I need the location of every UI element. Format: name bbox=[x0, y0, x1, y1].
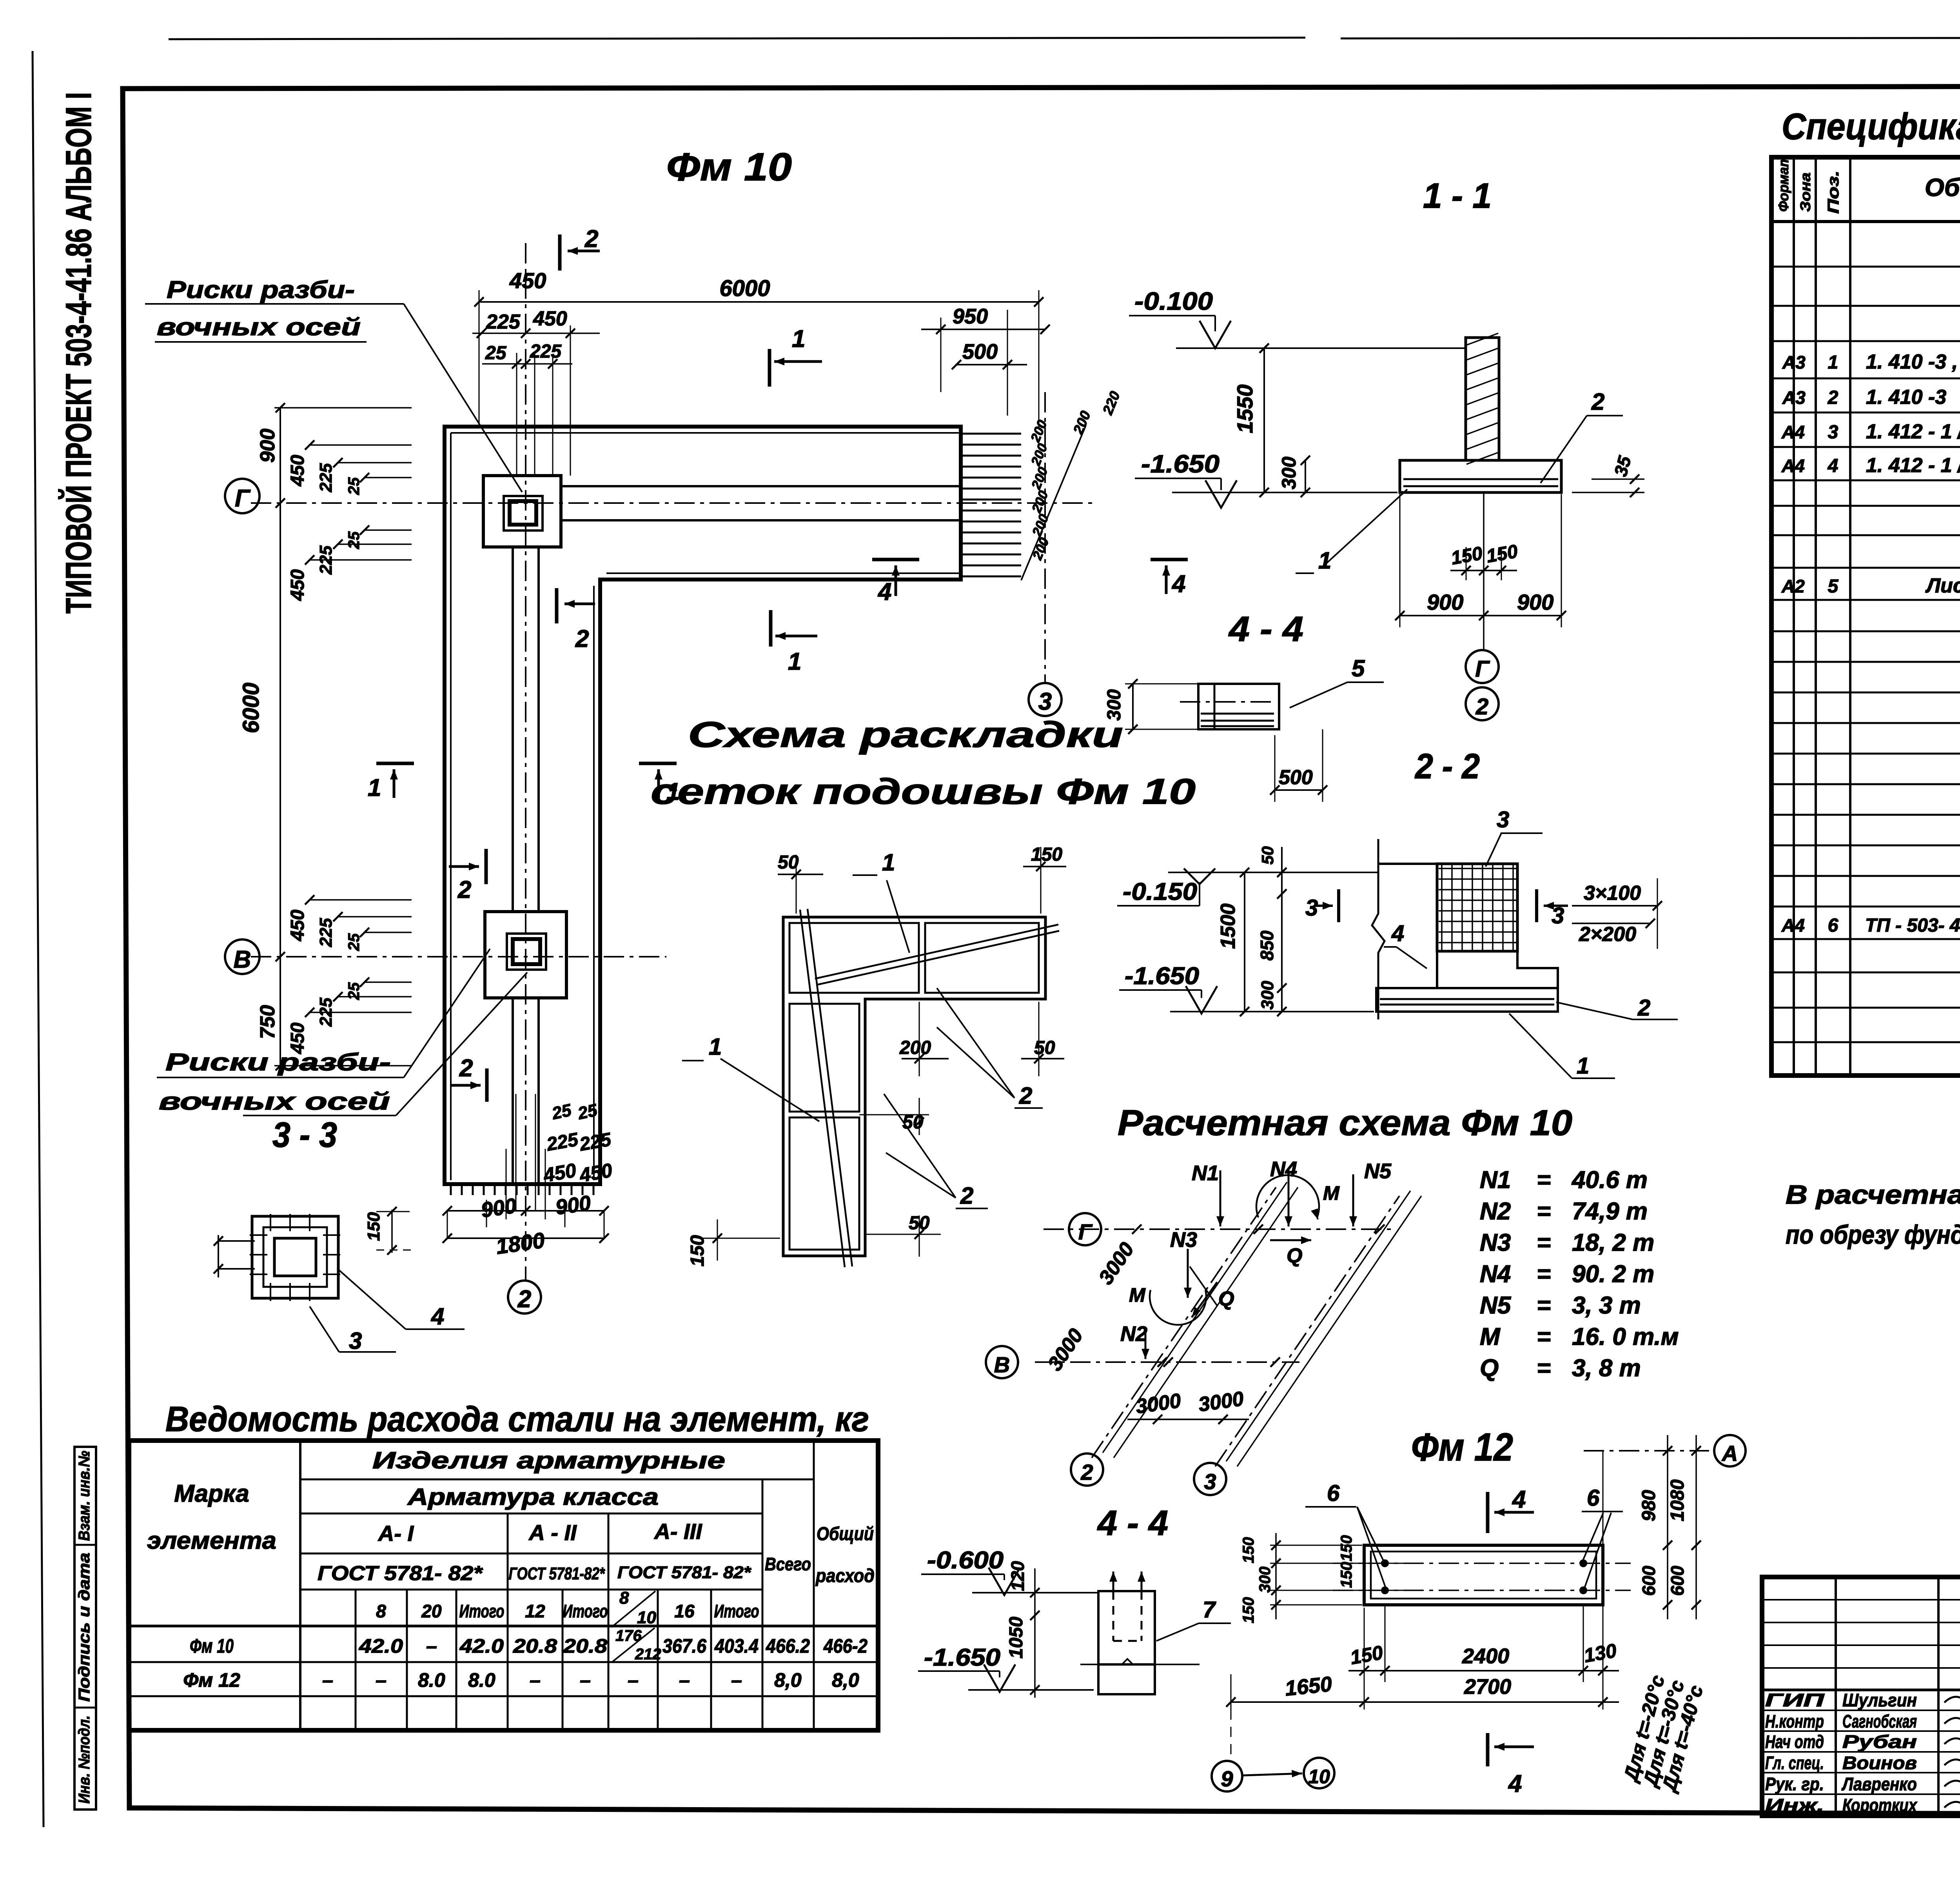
svg-text:3: 3 bbox=[1038, 688, 1052, 715]
svg-text:1. 412 - 1 / 77,: 1. 412 - 1 / 77, bbox=[1866, 420, 1960, 443]
svg-text:600: 600 bbox=[1667, 1566, 1688, 1596]
section mark 2 top bbox=[558, 234, 562, 271]
svg-text:2: 2 bbox=[1637, 995, 1650, 1021]
svg-text:Рук. гр.: Рук. гр. bbox=[1765, 1774, 1824, 1794]
svg-text:25: 25 bbox=[485, 343, 507, 363]
mesh sheets inner rects bbox=[789, 923, 919, 993]
svg-text:900: 900 bbox=[1517, 590, 1553, 614]
paper left edge line bbox=[33, 51, 44, 1827]
svg-text:8.0: 8.0 bbox=[468, 1669, 495, 1691]
mesh layout dims bbox=[796, 855, 797, 914]
svg-text:N2: N2 bbox=[1480, 1198, 1511, 1225]
svg-text:-0.600: -0.600 bbox=[927, 1547, 1004, 1574]
svg-text:=: = bbox=[1537, 1198, 1551, 1225]
svg-text:–: – bbox=[426, 1635, 437, 1657]
dims 150 150 bbox=[1466, 547, 1467, 580]
svg-text:16. 0 т.м: 16. 0 т.м bbox=[1572, 1323, 1679, 1350]
svg-text:-0.100: -0.100 bbox=[1134, 287, 1213, 315]
svg-text:Фм 10: Фм 10 bbox=[666, 145, 792, 189]
svg-text:6000: 6000 bbox=[719, 276, 770, 301]
dims 120 1050 bbox=[1034, 1568, 1036, 1698]
svg-text:Зона: Зона bbox=[1797, 173, 1813, 212]
svg-text:2×200: 2×200 bbox=[1579, 923, 1636, 946]
svg-text:–: – bbox=[679, 1669, 690, 1691]
svg-text:225: 225 bbox=[316, 463, 336, 492]
svg-text:4 - 4: 4 - 4 bbox=[1097, 1504, 1168, 1543]
svg-text:300: 300 bbox=[1278, 456, 1300, 489]
svg-text:900: 900 bbox=[1427, 590, 1463, 614]
svg-text:=: = bbox=[1537, 1261, 1551, 1288]
svg-text:1050: 1050 bbox=[1006, 1617, 1027, 1659]
svg-text:3: 3 bbox=[1828, 422, 1838, 443]
svg-text:Лист 11: Лист 11 bbox=[1925, 574, 1960, 597]
svg-text:4: 4 bbox=[1512, 1486, 1526, 1513]
svg-text:Арматура класса: Арматура класса bbox=[407, 1484, 659, 1510]
svg-text:N5: N5 bbox=[1480, 1292, 1512, 1319]
svg-text:3: 3 bbox=[1305, 895, 1318, 921]
2-2 step and footing bbox=[1437, 951, 1558, 988]
column pad at G/2 bbox=[483, 476, 561, 547]
axis circle V bbox=[225, 939, 260, 974]
svg-text:212: 212 bbox=[635, 1646, 661, 1663]
svg-text:-1.650: -1.650 bbox=[924, 1644, 1000, 1671]
svg-text:3: 3 bbox=[349, 1328, 362, 1354]
vedomost grid bbox=[129, 1441, 878, 1730]
2-2 break line bbox=[1372, 839, 1385, 1019]
svg-text:466.2: 466.2 bbox=[766, 1635, 810, 1657]
svg-text:по обрезу фундамента на: по обрезу фундамента на отм. - 0. 150. bbox=[1786, 1220, 1960, 1250]
svg-text:4: 4 bbox=[1828, 456, 1838, 476]
svg-text:1080: 1080 bbox=[1667, 1479, 1688, 1521]
dim 35 bbox=[1572, 492, 1644, 493]
load N2 bbox=[1145, 1331, 1147, 1359]
svg-text:300: 300 bbox=[1258, 981, 1277, 1010]
load Q top bbox=[1270, 1239, 1311, 1241]
svg-text:–: – bbox=[530, 1669, 541, 1691]
load N5 bbox=[1352, 1174, 1354, 1226]
top dimension chain 6000 bbox=[479, 290, 480, 427]
svg-text:225: 225 bbox=[316, 918, 336, 947]
svg-text:1 - 1: 1 - 1 bbox=[1423, 176, 1492, 216]
svg-text:Формат: Формат bbox=[1775, 155, 1791, 212]
Fm12 anchors bbox=[1381, 1559, 1389, 1567]
svg-text:Н.контр: Н.контр bbox=[1765, 1711, 1824, 1731]
svg-text:8,0: 8,0 bbox=[832, 1669, 859, 1691]
svg-text:900: 900 bbox=[256, 429, 279, 463]
Fm12 right dims bbox=[1602, 1451, 1604, 1611]
svg-text:2400: 2400 bbox=[1462, 1644, 1509, 1668]
svg-text:Лавренко: Лавренко bbox=[1841, 1774, 1917, 1794]
svg-text:1: 1 bbox=[1828, 352, 1838, 373]
svg-text:Подпись и дата: Подпись и дата bbox=[76, 1553, 93, 1702]
axis 3 vertical dash-dot line bbox=[1044, 392, 1046, 683]
title block left columns bbox=[1762, 1577, 1960, 1816]
svg-text:950: 950 bbox=[953, 305, 988, 328]
svg-text:А4: А4 bbox=[1781, 915, 1805, 936]
svg-text:Поз.: Поз. bbox=[1825, 171, 1842, 214]
axis circles G and 2 under 1-1 bbox=[1466, 650, 1499, 683]
svg-text:2700: 2700 bbox=[1464, 1675, 1511, 1699]
svg-text:Схема раскладки: Схема раскладки bbox=[688, 715, 1123, 755]
svg-text:Расчетная схема Фм 10: Расчетная схема Фм 10 bbox=[1118, 1103, 1572, 1143]
svg-text:N3: N3 bbox=[1170, 1228, 1197, 1252]
svg-text:Рубан: Рубан bbox=[1842, 1731, 1917, 1752]
svg-text:N5: N5 bbox=[1364, 1159, 1392, 1183]
svg-text:42.0: 42.0 bbox=[359, 1635, 403, 1657]
svg-text:150: 150 bbox=[1240, 1537, 1257, 1563]
svg-text:176: 176 bbox=[615, 1627, 642, 1644]
load N3 bbox=[1187, 1249, 1189, 1298]
svg-text:16: 16 bbox=[674, 1601, 695, 1621]
vertical dim 6000 bbox=[279, 408, 281, 957]
svg-text:Итого: Итого bbox=[563, 1601, 608, 1621]
svg-text:150: 150 bbox=[1240, 1597, 1257, 1623]
svg-text:Сагнобская: Сагнобская bbox=[1842, 1711, 1917, 1731]
axis V dash-dot line bbox=[251, 956, 666, 957]
svg-text:2: 2 bbox=[459, 1055, 473, 1082]
dims 900 900 bbox=[1399, 494, 1401, 627]
svg-text:ГОСТ 5781- 82*: ГОСТ 5781- 82* bbox=[318, 1562, 483, 1585]
Fm12 centerlines bbox=[1333, 1562, 1631, 1564]
svg-text:20.8: 20.8 bbox=[563, 1635, 607, 1657]
axis A line and circle bbox=[1584, 1450, 1709, 1452]
svg-text:20: 20 bbox=[421, 1601, 442, 1621]
svg-text:3, 3 т: 3, 3 т bbox=[1572, 1292, 1641, 1319]
svg-text:M: M bbox=[1323, 1182, 1340, 1204]
svg-text:1. 410 -3: 1. 410 -3 bbox=[1866, 386, 1946, 409]
axis circle 3 (plan right) bbox=[1029, 683, 1062, 716]
svg-text:=: = bbox=[1537, 1166, 1551, 1194]
svg-text:8: 8 bbox=[376, 1601, 386, 1621]
svg-text:50: 50 bbox=[1034, 1037, 1055, 1058]
section mark 1 right strip bbox=[639, 762, 677, 765]
svg-text:расход: расход bbox=[815, 1566, 875, 1586]
svg-text:2: 2 bbox=[584, 225, 598, 253]
axis circles 9 and 10 bbox=[1212, 1761, 1242, 1791]
svg-text:1: 1 bbox=[368, 774, 381, 801]
svg-text:25: 25 bbox=[345, 982, 363, 1000]
svg-text:Гл. спец.: Гл. спец. bbox=[1765, 1753, 1824, 1773]
dim chain 25/225 bbox=[482, 363, 572, 365]
svg-text:1: 1 bbox=[788, 648, 801, 675]
svg-text:В: В bbox=[994, 1352, 1010, 1377]
section mark 3 left bbox=[1337, 889, 1340, 922]
svg-text:N1: N1 bbox=[1192, 1161, 1219, 1185]
moment M mid bbox=[1150, 1290, 1206, 1325]
svg-text:2: 2 bbox=[1475, 694, 1488, 719]
svg-text:Коротких: Коротких bbox=[1842, 1795, 1918, 1815]
load N4 with moment bbox=[1288, 1170, 1290, 1226]
svg-text:2: 2 bbox=[1019, 1083, 1032, 1109]
svg-text:=: = bbox=[1537, 1292, 1551, 1319]
svg-text:Фм 12: Фм 12 bbox=[183, 1669, 240, 1691]
mesh bars at strip right end bbox=[961, 434, 1021, 576]
svg-text:4: 4 bbox=[1171, 570, 1185, 598]
svg-text:20.8: 20.8 bbox=[513, 1635, 557, 1657]
svg-text:А- III: А- III bbox=[653, 1519, 702, 1544]
svg-text:4: 4 bbox=[1391, 921, 1404, 946]
svg-text:Шульгин: Шульгин bbox=[1842, 1690, 1917, 1710]
svg-text:74,9 т: 74,9 т bbox=[1572, 1198, 1648, 1225]
svg-text:3 - 3: 3 - 3 bbox=[272, 1116, 337, 1155]
mesh bars at strip bottom end bbox=[451, 1184, 593, 1195]
svg-text:1500: 1500 bbox=[1217, 903, 1240, 949]
svg-text:сеток подошвы Фм 10: сеток подошвы Фм 10 bbox=[651, 772, 1196, 812]
svg-text:4 - 4: 4 - 4 bbox=[1228, 610, 1303, 649]
Fm12 left dims bbox=[1270, 1545, 1362, 1546]
section mark 4 bottom (Fm12) bbox=[1486, 1733, 1490, 1766]
svg-text:Взам. инв.№: Взам. инв.№ bbox=[76, 1451, 93, 1541]
svg-text:25: 25 bbox=[576, 1101, 599, 1123]
section mark 4 on strip bbox=[872, 558, 919, 561]
svg-text:450: 450 bbox=[287, 569, 308, 601]
svg-text:4: 4 bbox=[877, 578, 891, 605]
section mark 2 above pad2 bbox=[485, 849, 488, 884]
axon axis 3 diagonal bbox=[1215, 1196, 1399, 1466]
svg-text:450: 450 bbox=[509, 268, 546, 293]
svg-text:Итого: Итого bbox=[459, 1601, 505, 1621]
footing mesh edge inner lines bbox=[451, 432, 961, 434]
svg-text:ТИПОВОЙ ПРОЕКТ 503-4-41.86 АЛЬ: ТИПОВОЙ ПРОЕКТ 503-4-41.86 АЛЬБОМ I bbox=[58, 92, 99, 614]
svg-text:1: 1 bbox=[709, 1034, 722, 1060]
svg-text:450: 450 bbox=[287, 910, 308, 941]
svg-text:Воинов: Воинов bbox=[1842, 1753, 1917, 1773]
Fm12 plan rect bbox=[1364, 1545, 1603, 1605]
svg-text:50: 50 bbox=[909, 1213, 930, 1234]
svg-text:-1.650: -1.650 bbox=[1141, 450, 1220, 478]
specification table grid bbox=[1771, 157, 1960, 1076]
dim 300 (4-4) bbox=[1125, 683, 1198, 685]
svg-text:500: 500 bbox=[1279, 766, 1313, 789]
svg-text:1550: 1550 bbox=[1232, 384, 1257, 433]
svg-text:42.0: 42.0 bbox=[459, 1635, 504, 1657]
svg-text:–: – bbox=[322, 1669, 333, 1691]
svg-text:3: 3 bbox=[1497, 807, 1509, 832]
left dim chain near pad1 bbox=[274, 407, 412, 409]
svg-text:N2: N2 bbox=[1120, 1322, 1147, 1346]
svg-text:Фм 12: Фм 12 bbox=[1411, 1425, 1513, 1469]
svg-text:403.4: 403.4 bbox=[714, 1635, 759, 1657]
svg-text:500: 500 bbox=[962, 340, 998, 363]
dim 1550 bbox=[1263, 348, 1265, 492]
svg-text:А: А bbox=[1721, 1441, 1738, 1466]
svg-text:А - II: А - II bbox=[528, 1520, 577, 1545]
section mark 1 top bbox=[768, 349, 771, 387]
wall edge lines along axis 2 bbox=[512, 547, 514, 912]
svg-text:90. 2 т: 90. 2 т bbox=[1572, 1261, 1654, 1288]
svg-text:600: 600 bbox=[1639, 1566, 1659, 1596]
svg-text:450: 450 bbox=[287, 455, 308, 487]
svg-text:4: 4 bbox=[1508, 1770, 1522, 1797]
bottom dim chains of plan bbox=[515, 1094, 517, 1212]
svg-text:5: 5 bbox=[1828, 576, 1839, 597]
section mark 1 bottom bbox=[769, 610, 773, 647]
mesh diagonal marks bbox=[800, 910, 845, 1267]
svg-text:8,0: 8,0 bbox=[774, 1669, 802, 1691]
svg-text:980: 980 bbox=[1639, 1490, 1659, 1521]
svg-text:Г: Г bbox=[235, 485, 251, 512]
section mark 4 top (Fm12) bbox=[1486, 1492, 1490, 1533]
3-3 drawing bbox=[252, 1216, 338, 1298]
svg-text:9: 9 bbox=[1221, 1766, 1233, 1791]
2-2 vertical dims bbox=[1244, 872, 1245, 1012]
signatures scribbles bbox=[1944, 1695, 1960, 1706]
svg-text:Ведомость расхода стали на: Ведомость расхода стали на элемент, кг bbox=[165, 1400, 869, 1439]
2-2 column with mesh bbox=[1437, 864, 1517, 951]
svg-text:12: 12 bbox=[525, 1601, 545, 1621]
svg-text:25: 25 bbox=[550, 1101, 573, 1123]
svg-text:2: 2 bbox=[575, 625, 589, 652]
svg-text:–: – bbox=[731, 1669, 742, 1691]
svg-text:2: 2 bbox=[1591, 389, 1604, 415]
svg-text:А4: А4 bbox=[1781, 422, 1805, 442]
left dim chain near pad2 bbox=[310, 899, 412, 901]
axon axis G bbox=[1044, 1228, 1396, 1230]
dim 950/500 at strip end bbox=[940, 318, 942, 392]
svg-text:ГОСТ 5781-82*: ГОСТ 5781-82* bbox=[509, 1564, 605, 1583]
svg-text:-0.150: -0.150 bbox=[1123, 878, 1197, 905]
svg-text:2: 2 bbox=[1080, 1460, 1093, 1484]
svg-text:N4: N4 bbox=[1480, 1261, 1511, 1288]
svg-text:Q: Q bbox=[1218, 1288, 1234, 1310]
svg-text:466-2: 466-2 bbox=[823, 1635, 867, 1657]
svg-text:8: 8 bbox=[619, 1588, 629, 1608]
svg-text:элемента: элемента bbox=[147, 1527, 276, 1554]
svg-text:–: – bbox=[628, 1669, 639, 1691]
axon axis V bbox=[1035, 1361, 1299, 1363]
axis 2 vertical dash-dot line bbox=[525, 243, 526, 1281]
svg-text:Q: Q bbox=[1480, 1355, 1499, 1382]
svg-text:А3: А3 bbox=[1782, 387, 1806, 408]
svg-text:–: – bbox=[376, 1669, 387, 1691]
svg-text:150: 150 bbox=[1338, 1535, 1355, 1561]
section mark 2 below pad2 bbox=[485, 1068, 489, 1102]
svg-text:N3: N3 bbox=[1480, 1229, 1511, 1256]
svg-text:850: 850 bbox=[1257, 930, 1277, 961]
svg-text:N1: N1 bbox=[1480, 1166, 1511, 1194]
mesh layout outline bbox=[783, 917, 1045, 1256]
svg-text:M: M bbox=[1129, 1284, 1146, 1306]
svg-text:6000: 6000 bbox=[238, 683, 264, 733]
svg-text:Итого: Итого bbox=[714, 1601, 759, 1621]
svg-text:1: 1 bbox=[792, 325, 805, 352]
Fm12 bottom dims bbox=[1364, 1608, 1365, 1710]
svg-text:2: 2 bbox=[457, 876, 471, 903]
left margin stamp strip bbox=[74, 1447, 96, 1810]
svg-text:10: 10 bbox=[1308, 1766, 1330, 1788]
svg-text:Г: Г bbox=[1078, 1219, 1093, 1244]
svg-text:Спецификация фундаментоб Фм: Спецификация фундаментоб Фм 10, Фм 12 bbox=[1782, 106, 1960, 147]
svg-text:3: 3 bbox=[1552, 903, 1564, 928]
svg-text:900: 900 bbox=[554, 1191, 592, 1219]
svg-text:вочных осей: вочных осей bbox=[159, 1088, 390, 1115]
svg-text:=: = bbox=[1537, 1355, 1551, 1382]
svg-text:ГИП: ГИП bbox=[1765, 1690, 1824, 1710]
svg-text:Инж.: Инж. bbox=[1765, 1795, 1824, 1815]
svg-text:Изделия арматурные: Изделия арматурные bbox=[372, 1447, 725, 1473]
svg-text:=: = bbox=[1537, 1323, 1551, 1350]
axon strip edges bbox=[1103, 1182, 1287, 1453]
axis circle 2 (plan bottom) bbox=[508, 1281, 541, 1314]
anchor detail drawing bbox=[1098, 1591, 1155, 1664]
svg-text:2 - 2: 2 - 2 bbox=[1414, 747, 1480, 786]
svg-text:10: 10 bbox=[637, 1608, 656, 1627]
svg-text:4: 4 bbox=[431, 1303, 444, 1330]
svg-text:2: 2 bbox=[517, 1286, 531, 1313]
wall edge lines along axis G bbox=[561, 485, 961, 487]
svg-text:ТП - 503- 4- 41.86: ТП - 503- 4- 41.86 bbox=[1865, 915, 1960, 936]
4-4 mesh bar bbox=[1198, 684, 1279, 729]
svg-text:3, 8 т: 3, 8 т bbox=[1572, 1355, 1641, 1382]
axis line under footing 1-1 bbox=[1483, 492, 1485, 650]
svg-text:Г: Г bbox=[1475, 656, 1490, 682]
svg-text:2: 2 bbox=[960, 1183, 973, 1209]
svg-text:900: 900 bbox=[479, 1194, 518, 1222]
svg-text:6: 6 bbox=[1587, 1485, 1600, 1511]
svg-text:2: 2 bbox=[1828, 387, 1838, 408]
svg-text:А2: А2 bbox=[1781, 576, 1805, 596]
svg-text:300: 300 bbox=[1256, 1566, 1274, 1593]
svg-text:Нач отд: Нач отд bbox=[1765, 1731, 1824, 1752]
svg-text:50: 50 bbox=[1258, 846, 1277, 865]
svg-text:3×100: 3×100 bbox=[1584, 882, 1641, 905]
svg-text:1. 412 - 1 / 77,: 1. 412 - 1 / 77, bbox=[1866, 454, 1960, 477]
svg-text:150: 150 bbox=[364, 1212, 383, 1241]
svg-text:А- I: А- I bbox=[377, 1521, 414, 1546]
svg-text:5: 5 bbox=[1352, 655, 1365, 681]
svg-text:1650: 1650 bbox=[1284, 1672, 1333, 1701]
dim 500 (4-4) bbox=[1274, 735, 1276, 802]
svg-text:–: – bbox=[580, 1669, 591, 1691]
section mark 2 below pad1 bbox=[555, 588, 559, 623]
axon axis 2 diagonal bbox=[1092, 1187, 1276, 1458]
paper top edge line bbox=[169, 38, 1305, 39]
svg-text:Инв. №подл.: Инв. №подл. bbox=[76, 1715, 93, 1804]
svg-text:Риски разби-: Риски разби- bbox=[167, 276, 355, 303]
section mark 3 right + spacing dims bbox=[1535, 889, 1538, 922]
svg-text:Фм 10: Фм 10 bbox=[190, 1635, 234, 1657]
svg-text:Риски разби-: Риски разби- bbox=[165, 1049, 391, 1076]
svg-text:вочных осей: вочных осей bbox=[157, 314, 361, 341]
svg-text:В расчетнай схеме даны: В расчетнай схеме даны нормативные нагру… bbox=[1786, 1180, 1960, 1210]
svg-text:450: 450 bbox=[533, 307, 567, 330]
svg-text:А3: А3 bbox=[1782, 352, 1806, 372]
2-2 upper wall outline bbox=[1378, 863, 1437, 865]
svg-text:750: 750 bbox=[256, 1005, 279, 1039]
svg-text:1. 410 -3 ,: 1. 410 -3 , bbox=[1866, 351, 1958, 373]
dim 300 (1-1) bbox=[1305, 460, 1306, 492]
svg-text:150: 150 bbox=[1031, 844, 1062, 865]
svg-text:8.0: 8.0 bbox=[418, 1669, 445, 1691]
footing section 1-1 bbox=[1400, 460, 1561, 492]
column pad at V/2 bbox=[485, 912, 566, 998]
svg-text:Обозначение: Обозначение bbox=[1925, 173, 1960, 202]
svg-text:200: 200 bbox=[899, 1037, 931, 1058]
svg-text:6: 6 bbox=[1327, 1481, 1340, 1506]
svg-text:Общий: Общий bbox=[817, 1524, 874, 1544]
svg-text:1: 1 bbox=[1577, 1053, 1589, 1079]
svg-text:150: 150 bbox=[1338, 1562, 1355, 1588]
svg-text:3: 3 bbox=[1204, 1469, 1216, 1494]
svg-text:225: 225 bbox=[486, 311, 521, 333]
dim chain 225/450 bbox=[472, 332, 600, 334]
3-3 dim 150 bbox=[391, 1210, 393, 1253]
svg-text:6: 6 bbox=[1828, 915, 1838, 936]
svg-text:120: 120 bbox=[1007, 1561, 1028, 1591]
axis circle G bbox=[225, 479, 260, 513]
svg-text:50: 50 bbox=[778, 852, 799, 873]
svg-text:В: В bbox=[234, 946, 251, 973]
